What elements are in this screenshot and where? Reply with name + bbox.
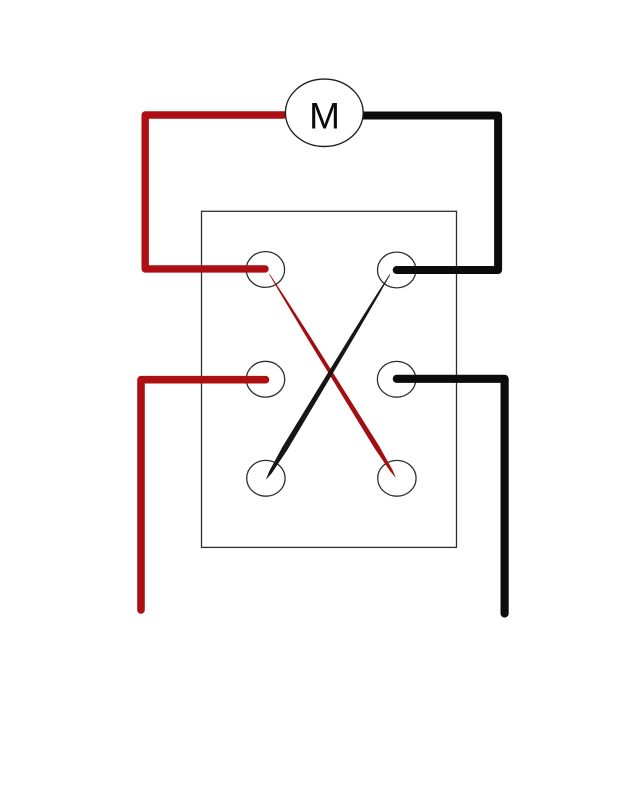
wire black motor to terminal2 <box>364 116 499 271</box>
terminal 4 (mid-right) <box>377 361 415 397</box>
wire red terminal3 to bottom-left lead <box>141 380 266 610</box>
wire black terminal4 to bottom-right lead <box>397 379 505 614</box>
svg-text:M: M <box>309 95 340 136</box>
terminal 5 (bottom-left) <box>247 460 285 496</box>
terminal 1 (top-left) <box>246 252 284 288</box>
terminal 2 (top-right) <box>378 252 416 288</box>
terminal 6 (bottom-right) <box>378 460 416 496</box>
wire black diagonal jumper terminal2 to terminal5 <box>266 274 390 479</box>
wire red diagonal jumper terminal1 to terminal6 <box>269 274 396 477</box>
terminal 3 (mid-left) <box>246 361 284 397</box>
wire red motor to terminal1 <box>145 115 283 269</box>
motor M <box>285 79 363 146</box>
switch body outline <box>202 211 457 547</box>
